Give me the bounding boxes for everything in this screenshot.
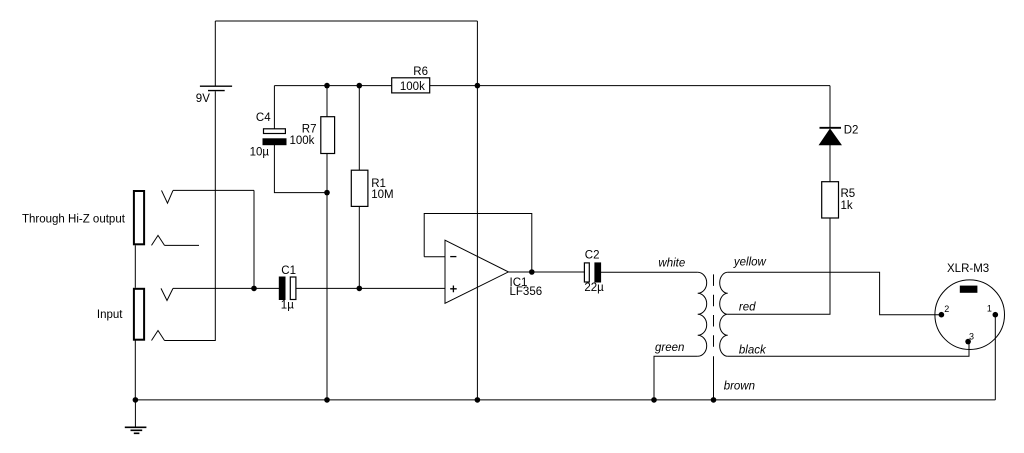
wire inverting input (424, 256, 445, 258)
svg-text:C2: C2 (585, 249, 600, 261)
diode D2 triangle (820, 129, 842, 145)
battery BT1 9V bottom plate (208, 90, 225, 92)
wire rail left segment (274, 85, 391, 87)
resistor R6 body (392, 78, 430, 93)
jack J1 switch contact (152, 235, 165, 245)
transformer T1 secondary winding (720, 272, 728, 356)
wire J1 tip to node (173, 189, 254, 191)
wire red centre tap to R5 (728, 218, 830, 314)
ground symbol bars (125, 427, 147, 433)
junction dot ground at jacks (133, 397, 139, 403)
wire R7 top from rail (326, 86, 328, 117)
svg-text:C1: C1 (281, 265, 296, 277)
XLR latch key (960, 286, 978, 293)
svg-text:10µ: 10µ (250, 147, 270, 159)
svg-text:D2: D2 (844, 125, 859, 137)
wire R7 bottom to ground rail (326, 154, 328, 400)
wire XLR pin1 to ground rail (994, 315, 996, 400)
svg-text:9V: 9V (196, 93, 210, 105)
jack J2 switch contact (152, 331, 165, 341)
svg-text:red: red (739, 302, 756, 314)
transformer T1 shield brown lead (713, 356, 715, 400)
junction dot brown ground (711, 397, 717, 403)
svg-text:R7: R7 (302, 124, 317, 136)
ground symbol stem (134, 400, 136, 427)
junction dot J1 tip joins input (251, 286, 257, 292)
svg-text:LF356: LF356 (510, 286, 543, 298)
transformer T1 core (713, 274, 715, 352)
svg-text:100k: 100k (400, 81, 425, 93)
junction dot R1 top (357, 83, 363, 89)
wire C4 branch from rail down (273, 86, 275, 129)
svg-text:100k: 100k (290, 135, 315, 147)
svg-text:yellow: yellow (733, 256, 767, 268)
wire top rail from battery+ to right drop (215, 20, 477, 22)
XLR-M3 connector circle (935, 280, 1005, 350)
junction dot R7 ground (324, 397, 330, 403)
wire C1 to op-amp + input (296, 287, 445, 289)
junction dot supply drop at rail (475, 83, 481, 89)
wire yellow lead to XLR pin2 (728, 272, 942, 314)
wire D2 to R5 (829, 145, 831, 182)
wire ground rail (135, 399, 995, 401)
jack J1 body Through Hi-Z output (134, 191, 144, 244)
wire feedback loop (424, 214, 532, 273)
op-amp plus sign (450, 286, 457, 293)
svg-text:brown: brown (724, 381, 755, 393)
svg-text:22µ: 22µ (584, 282, 604, 294)
XLR pin2 dot (939, 312, 945, 318)
wire R1 bottom to + input net (358, 206, 360, 288)
wire supply drop x477 (476, 21, 478, 400)
junction dot R7 top (324, 83, 330, 89)
wire op-amp output to C2 (508, 271, 584, 273)
junction dot R1 bottom joins + input (357, 286, 363, 292)
svg-text:C4: C4 (256, 112, 271, 124)
battery BT1 9V top plate (200, 85, 232, 87)
wire J2 body to ground rail (134, 340, 136, 400)
wire battery positive stem (214, 21, 216, 86)
junction dot green ground (651, 397, 657, 403)
junction dot supply drop ground (475, 397, 481, 403)
junction dot feedback at output (529, 269, 535, 275)
jack J2 tip contact V (161, 288, 173, 300)
transformer T1 primary winding (698, 272, 707, 356)
wire rail right segment to D2 branch (430, 85, 830, 87)
resistor R1 body (351, 170, 368, 206)
svg-text:1µ: 1µ (281, 299, 294, 311)
wire J1 switch open end (165, 244, 200, 246)
resistor R5 body (822, 182, 839, 218)
wire R1 top from rail (358, 86, 360, 171)
svg-text:2: 2 (944, 304, 949, 314)
svg-text:R6: R6 (413, 66, 428, 78)
op-amp IC1 triangle (445, 240, 508, 303)
diode D2 cathode bar (820, 127, 842, 129)
svg-text:1: 1 (987, 304, 992, 314)
junction dot R7/C4 bottom (324, 190, 330, 196)
jack J1 tip contact V (162, 190, 174, 203)
op-amp minus sign (450, 256, 456, 258)
jack J2 body Input (134, 289, 144, 340)
svg-text:10M: 10M (371, 189, 393, 201)
resistor R7 body (321, 117, 335, 154)
wire J2 tip to C1 (173, 287, 279, 289)
wire J1 tip drop to input net (253, 190, 255, 288)
wire black lead to XLR pin3 (728, 342, 969, 357)
svg-text:Through Hi-Z output: Through Hi-Z output (22, 214, 126, 226)
svg-text:green: green (655, 342, 684, 354)
XLR pin1 dot (993, 312, 999, 318)
capacitor C4 positive plate (264, 129, 286, 134)
svg-text:black: black (739, 345, 767, 357)
wire jack body link J1-J2 (134, 245, 136, 287)
svg-text:3: 3 (969, 331, 974, 341)
wire D2 branch from rail (829, 86, 831, 127)
wire C2 to transformer primary white lead (601, 271, 698, 273)
capacitor C1 negative plate (279, 277, 285, 300)
svg-text:XLR-M3: XLR-M3 (947, 263, 989, 275)
capacitor C4 negative plate (263, 139, 286, 145)
capacitor C2 negative plate (595, 263, 601, 282)
capacitor C1 positive plate (290, 277, 296, 300)
wire C4 bottom to R7 bottom (274, 145, 327, 193)
wire green lead to ground (654, 356, 698, 400)
XLR pin3 dot (965, 339, 971, 345)
capacitor C2 positive plate (584, 263, 589, 282)
svg-text:Input: Input (97, 309, 123, 321)
svg-text:white: white (658, 257, 685, 269)
svg-text:1k: 1k (841, 200, 853, 212)
svg-text:R5: R5 (841, 188, 856, 200)
wire battery negative stem down to jack switch (165, 91, 216, 340)
